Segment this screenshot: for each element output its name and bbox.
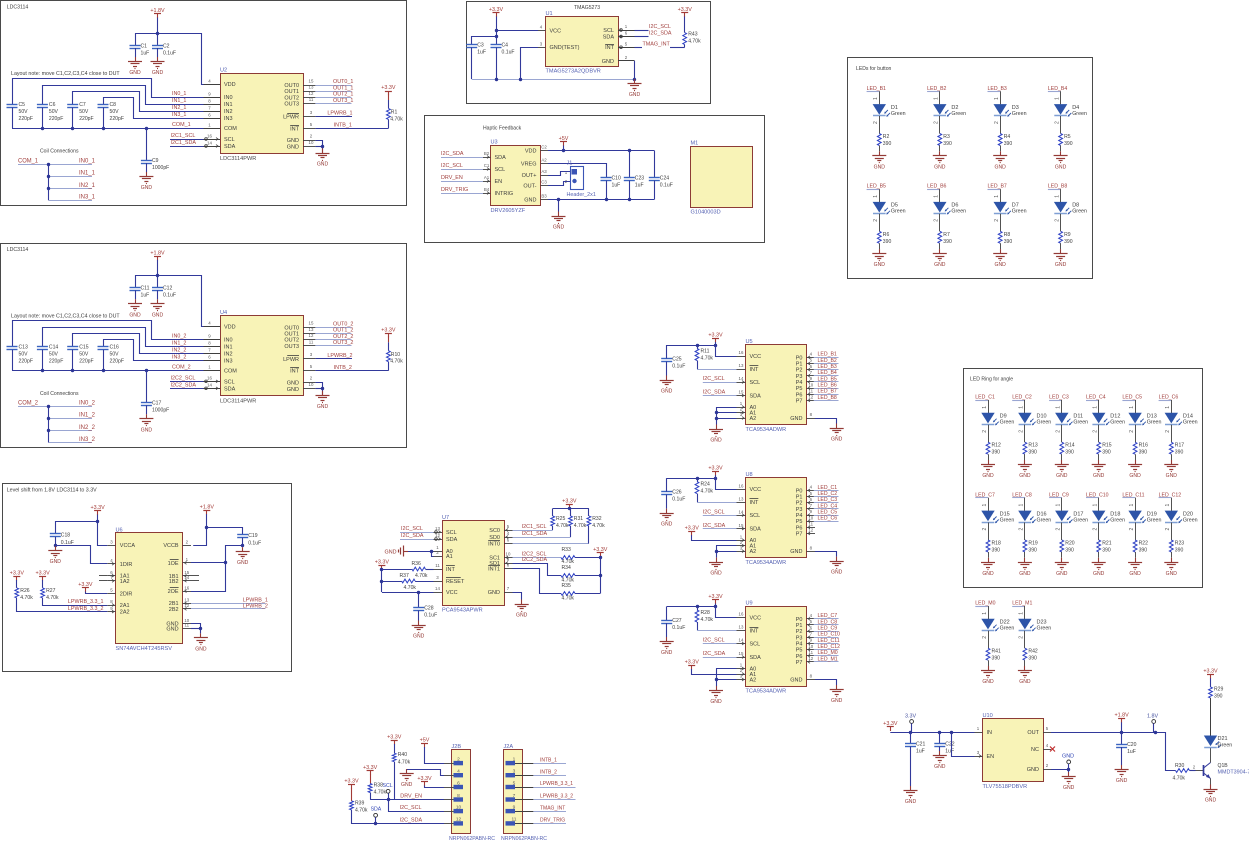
svg-text:SDA: SDA (750, 655, 762, 661)
junction (599, 574, 602, 577)
svg-text:4: 4 (810, 613, 813, 618)
svg-text:P3: P3 (796, 507, 803, 513)
IC U7 PCA9543APWR (443, 521, 505, 606)
pin 1 SCL (618, 30, 635, 32)
LED D21 (1204, 736, 1217, 747)
svg-text:390: 390 (992, 548, 1001, 554)
wire (814, 357, 839, 359)
pin 14 VCC (434, 592, 443, 594)
svg-text:1: 1 (982, 612, 988, 615)
wire (910, 747, 912, 787)
wire (170, 381, 204, 383)
svg-text:C5: C5 (19, 102, 26, 108)
svg-text:SDA: SDA (603, 35, 615, 41)
svg-text:50V: 50V (110, 351, 120, 357)
svg-text:I2C_SDA: I2C_SDA (703, 390, 726, 396)
svg-text:+1.8V: +1.8V (1114, 713, 1129, 719)
pin B2 SDA (483, 157, 491, 159)
pin 12 P7 (807, 400, 816, 402)
svg-text:OUT0_2: OUT0_2 (333, 322, 353, 328)
wire (575, 593, 600, 595)
wire (563, 146, 565, 151)
svg-text:DRV_TRIG: DRV_TRIG (540, 818, 565, 824)
wire (814, 502, 839, 504)
wire (471, 48, 473, 80)
pin 2 GND (303, 140, 315, 142)
svg-text:B4: B4 (484, 187, 490, 192)
svg-text:VCC: VCC (446, 590, 458, 596)
wire (716, 475, 737, 489)
wire (558, 200, 560, 212)
wire (513, 543, 589, 545)
wire (939, 214, 941, 232)
capacitor C8 (98, 104, 109, 106)
svg-text:1: 1 (1129, 504, 1135, 507)
svg-text:OUT3_1: OUT3_1 (333, 98, 353, 104)
svg-text:INT: INT (750, 367, 760, 373)
svg-text:390: 390 (1214, 694, 1223, 700)
connector J2B NRPN062PABN-RC (452, 750, 471, 834)
LED D19 (1128, 511, 1141, 522)
wire (1000, 243, 1002, 249)
pin 10 GND (303, 388, 315, 390)
svg-text:8: 8 (208, 341, 211, 346)
svg-text:Green: Green (1000, 420, 1015, 426)
svg-text:LED_C5: LED_C5 (818, 509, 838, 515)
pin 11 OUT3 (303, 103, 315, 105)
wire (146, 370, 148, 402)
wire (815, 419, 837, 424)
wire (418, 611, 420, 621)
wire (49, 430, 92, 432)
wire (814, 388, 839, 390)
svg-text:LED_B4: LED_B4 (1048, 86, 1067, 92)
svg-text:I2C1_SCL: I2C1_SCL (171, 133, 196, 139)
svg-text:U6: U6 (116, 527, 123, 533)
junction (156, 274, 159, 277)
pin 1 (506, 761, 516, 765)
svg-text:GND: GND (385, 549, 397, 555)
svg-text:9: 9 (110, 606, 113, 611)
svg-text:+3.3V: +3.3V (387, 735, 402, 741)
svg-text:C26: C26 (672, 490, 682, 496)
svg-text:LPWRB_2: LPWRB_2 (243, 603, 268, 609)
svg-text:I2C_SDA: I2C_SDA (400, 817, 423, 823)
svg-text:4.70k: 4.70k (415, 573, 428, 579)
wire (315, 327, 351, 329)
pin 1 A0 (737, 407, 746, 409)
resistor R7 (938, 231, 942, 243)
svg-text:4: 4 (810, 485, 813, 490)
resistor R41 (986, 648, 990, 660)
svg-text:1: 1 (1019, 612, 1025, 615)
pin 6 (444, 787, 454, 789)
LED D9 (981, 413, 994, 424)
svg-text:1: 1 (1056, 406, 1062, 409)
svg-text:D21: D21 (1218, 736, 1228, 742)
svg-text:LPWRB_2: LPWRB_2 (327, 353, 352, 359)
svg-text:13: 13 (739, 625, 744, 630)
pin 5 OUT (1043, 732, 1051, 734)
svg-text:LPWRB_3.3_1: LPWRB_3.3_1 (540, 781, 573, 787)
svg-text:IN3_1: IN3_1 (172, 112, 186, 118)
svg-text:R36: R36 (412, 561, 422, 567)
svg-text:2: 2 (982, 430, 988, 433)
svg-text:10: 10 (808, 382, 813, 387)
wire (697, 369, 737, 371)
wire (666, 345, 668, 359)
resistor R37 (402, 579, 416, 583)
svg-text:C2: C2 (163, 43, 170, 49)
frame LED Ring for angle (964, 369, 1203, 588)
wire (666, 607, 668, 621)
svg-text:GND: GND (287, 138, 299, 144)
svg-text:LED_B3: LED_B3 (988, 86, 1007, 92)
svg-text:11: 11 (435, 563, 440, 568)
capacitor C23 (624, 177, 635, 179)
wire COM bus (12, 370, 204, 372)
svg-text:LED_C4: LED_C4 (1086, 395, 1106, 401)
pin 6 SDA (618, 36, 635, 38)
svg-text:0.1uF: 0.1uF (672, 625, 685, 631)
svg-text:LED_C1: LED_C1 (975, 395, 995, 401)
wire (1135, 400, 1137, 413)
wire (703, 515, 737, 517)
ground (836, 557, 838, 562)
wire (388, 100, 390, 108)
svg-text:1: 1 (1093, 504, 1099, 507)
svg-text:B3: B3 (541, 194, 547, 199)
svg-text:Green: Green (1073, 517, 1088, 523)
pin 2 A1 (434, 556, 443, 558)
junction (47, 163, 50, 166)
svg-text:GND: GND (524, 198, 536, 204)
svg-text:0.1uF: 0.1uF (660, 183, 673, 189)
pin B4 INTRIG (483, 193, 491, 195)
svg-text:C16: C16 (110, 344, 120, 350)
svg-text:220pF: 220pF (79, 116, 93, 122)
junction (430, 550, 433, 553)
wire (867, 91, 880, 93)
wire (394, 762, 396, 800)
svg-text:+5V: +5V (420, 738, 430, 744)
wire (814, 661, 839, 663)
resistor R28 (695, 610, 699, 622)
LED D23 (1018, 619, 1031, 630)
svg-text:Green: Green (1037, 517, 1052, 523)
wire (1086, 497, 1099, 499)
wire (12, 108, 14, 129)
pin 14 SCL (737, 382, 746, 384)
wire (18, 406, 92, 408)
svg-text:SCL: SCL (495, 167, 506, 173)
svg-text:9: 9 (208, 334, 211, 339)
junction (633, 78, 636, 81)
junction (241, 544, 244, 547)
wire (315, 333, 351, 335)
pin 12 P7 (807, 533, 816, 535)
wire (17, 598, 108, 612)
svg-text:0.1uF: 0.1uF (502, 50, 515, 56)
svg-text:3.3V: 3.3V (905, 714, 916, 720)
wire (716, 679, 737, 681)
pin B3 GND (541, 199, 549, 201)
wire (1210, 698, 1212, 736)
svg-text:Green: Green (1073, 420, 1088, 426)
svg-text:11: 11 (185, 623, 190, 628)
svg-text:GND: GND (982, 571, 994, 577)
svg-text:INTB_1: INTB_1 (540, 757, 557, 763)
wire (814, 521, 839, 523)
wire (716, 669, 718, 687)
ground (939, 249, 941, 254)
wire (879, 146, 881, 152)
svg-text:1: 1 (873, 195, 879, 198)
svg-text:GND: GND (1019, 571, 1031, 577)
svg-text:6: 6 (810, 364, 813, 369)
resistor R10 (387, 351, 391, 362)
pin 10 SC1 (504, 557, 513, 559)
svg-text:2: 2 (310, 133, 313, 138)
wire (146, 405, 148, 414)
svg-text:R29: R29 (1214, 687, 1224, 693)
wire (716, 412, 737, 414)
svg-text:C25: C25 (672, 357, 682, 363)
LED D17 (1055, 511, 1068, 522)
wire (48, 406, 50, 442)
svg-text:1OE: 1OE (168, 561, 179, 567)
svg-text:SDA: SDA (224, 144, 236, 150)
pin 9 2A2 (107, 611, 115, 613)
svg-text:13: 13 (309, 327, 314, 332)
ground (634, 79, 636, 84)
wire (939, 91, 941, 104)
ground (716, 686, 718, 691)
svg-text:12: 12 (808, 656, 813, 661)
svg-text:I2C_SDA: I2C_SDA (649, 31, 672, 37)
svg-text:R23: R23 (1175, 541, 1185, 547)
wire (513, 564, 562, 576)
svg-text:GND: GND (790, 678, 802, 684)
wire (135, 48, 137, 57)
wire (1000, 214, 1002, 232)
svg-text:MMDT3904-7-F: MMDT3904-7-F (1218, 770, 1249, 776)
svg-text:OUT1: OUT1 (284, 89, 299, 95)
svg-text:1: 1 (565, 170, 568, 175)
svg-text:16: 16 (184, 585, 189, 590)
svg-text:INTB_1: INTB_1 (334, 123, 352, 129)
wire (697, 607, 699, 611)
svg-text:220pF: 220pF (19, 116, 33, 122)
wire (407, 770, 444, 776)
svg-text:LED_B2: LED_B2 (927, 86, 946, 92)
wire (370, 775, 372, 784)
pin 15 1B1 (183, 575, 191, 577)
svg-text:IN0_1: IN0_1 (79, 158, 96, 164)
junction (199, 627, 202, 630)
wire (1024, 660, 1026, 666)
wire (1171, 400, 1173, 413)
svg-text:1: 1 (934, 195, 940, 198)
svg-text:I2C_SDA: I2C_SDA (401, 533, 424, 539)
svg-text:1: 1 (1129, 406, 1135, 409)
svg-text:12: 12 (309, 333, 314, 338)
svg-text:2B2: 2B2 (169, 607, 179, 613)
resistor R36 (412, 567, 426, 571)
svg-text:P7: P7 (796, 398, 803, 404)
svg-text:GND: GND (905, 799, 917, 805)
junction (938, 731, 941, 734)
svg-text:R27: R27 (46, 588, 56, 594)
svg-text:COM: COM (224, 368, 237, 374)
wire (1086, 400, 1099, 402)
svg-text:C22: C22 (945, 742, 955, 748)
junction (47, 417, 50, 420)
svg-text:12: 12 (184, 603, 189, 608)
svg-text:R13: R13 (1028, 443, 1038, 449)
pin A3 OUT+ (541, 175, 549, 177)
wire (1024, 523, 1026, 541)
svg-text:390: 390 (1064, 239, 1073, 245)
svg-text:50V: 50V (49, 351, 59, 357)
wire (910, 732, 912, 744)
ground (1210, 785, 1212, 790)
ground (1000, 249, 1002, 254)
wire INTB (315, 128, 388, 130)
wire (815, 680, 837, 686)
svg-text:4: 4 (208, 321, 211, 326)
svg-text:GND: GND (553, 225, 565, 231)
ground (716, 425, 718, 430)
svg-text:P2: P2 (796, 629, 803, 635)
svg-text:J2A: J2A (504, 744, 514, 750)
svg-text:GND: GND (1166, 473, 1178, 479)
LED D18 (1092, 511, 1105, 522)
capacitor C21 (905, 743, 916, 745)
ground (418, 621, 420, 626)
pin 9 P4 (807, 515, 816, 517)
wire (939, 146, 941, 152)
wire (242, 538, 244, 547)
IC U3 DRV2605YZF (491, 146, 541, 206)
wire (814, 643, 839, 645)
IC U1 TMAG5273A2QDBVR (546, 17, 619, 67)
wire (988, 400, 990, 413)
svg-text:GND: GND (237, 560, 249, 566)
svg-text:R30: R30 (1175, 763, 1185, 769)
wire (1024, 454, 1026, 460)
capacitor C9 (141, 160, 152, 162)
svg-text:IN3_1: IN3_1 (79, 195, 96, 201)
wire (1122, 497, 1135, 499)
wire (575, 557, 600, 559)
junction (715, 550, 718, 553)
svg-text:IN2_1: IN2_1 (172, 105, 186, 111)
svg-text:VDD: VDD (224, 324, 236, 330)
ground (1060, 249, 1062, 254)
wire (49, 176, 92, 178)
resistor R39 (350, 801, 354, 810)
wire (1068, 764, 1070, 769)
svg-text:GND: GND (831, 570, 843, 576)
svg-text:LED_C9: LED_C9 (818, 626, 838, 632)
wire (388, 362, 390, 371)
wire (1210, 748, 1212, 763)
svg-text:+3.3V: +3.3V (685, 526, 700, 532)
svg-text:11: 11 (309, 339, 314, 344)
wire (73, 92, 204, 112)
wire (1051, 769, 1069, 771)
svg-text:GND: GND (982, 473, 994, 479)
wire (684, 45, 686, 48)
pin 4 P0 (807, 490, 816, 492)
svg-text:U1: U1 (546, 11, 553, 17)
svg-text:2A1: 2A1 (120, 603, 130, 609)
pin 5 INT (303, 370, 315, 372)
pin 12 P7 (807, 661, 816, 663)
ground (988, 558, 990, 563)
svg-text:R4: R4 (1004, 134, 1011, 140)
wire (1024, 400, 1026, 413)
svg-text:IN2: IN2 (224, 109, 233, 115)
svg-text:Green: Green (1037, 626, 1052, 632)
svg-text:GND: GND (141, 185, 153, 191)
svg-text:R3: R3 (943, 134, 950, 140)
svg-text:220pF: 220pF (49, 116, 63, 122)
svg-text:IN3: IN3 (224, 116, 233, 122)
svg-text:P1: P1 (796, 495, 803, 501)
wire VDD bus (548, 150, 654, 152)
wire (1210, 678, 1212, 687)
svg-text:5: 5 (513, 780, 516, 786)
svg-text:P2: P2 (796, 501, 803, 507)
pin 8 IN1 (204, 104, 221, 106)
svg-text:4.70k: 4.70k (1173, 776, 1186, 782)
svg-text:50V: 50V (79, 109, 89, 115)
frame LDC3114 block (1, 1, 407, 206)
wire (191, 562, 225, 564)
resistor R11 (695, 349, 699, 361)
svg-text:1uF: 1uF (477, 50, 486, 56)
svg-text:C9: C9 (152, 158, 159, 164)
svg-text:R1: R1 (391, 110, 398, 116)
resistor R34 (561, 574, 575, 578)
resistor R15 (1097, 442, 1101, 454)
resistor R23 (1169, 540, 1173, 552)
svg-text:C1: C1 (484, 163, 490, 168)
svg-text:+1.8V: +1.8V (150, 250, 165, 256)
wire INTB (315, 370, 388, 372)
svg-text:GND: GND (287, 387, 299, 393)
wire (1060, 243, 1062, 249)
svg-text:2: 2 (1019, 636, 1025, 639)
svg-text:R31: R31 (574, 516, 584, 522)
svg-text:IN1: IN1 (224, 102, 233, 108)
frame LEDs for button (848, 58, 1093, 279)
svg-text:1: 1 (1165, 406, 1171, 409)
wire (158, 276, 204, 327)
svg-text:2: 2 (186, 539, 189, 544)
wire (814, 400, 839, 402)
pin 13 INT (737, 369, 746, 371)
resistor R24 (695, 482, 699, 494)
svg-text:1.8V: 1.8V (1147, 714, 1158, 720)
pin 2 A1 (737, 545, 746, 547)
svg-text:OUT2_2: OUT2_2 (333, 334, 353, 340)
svg-text:1B2: 1B2 (169, 579, 179, 585)
svg-text:GND: GND (710, 438, 722, 444)
wire (441, 181, 483, 183)
